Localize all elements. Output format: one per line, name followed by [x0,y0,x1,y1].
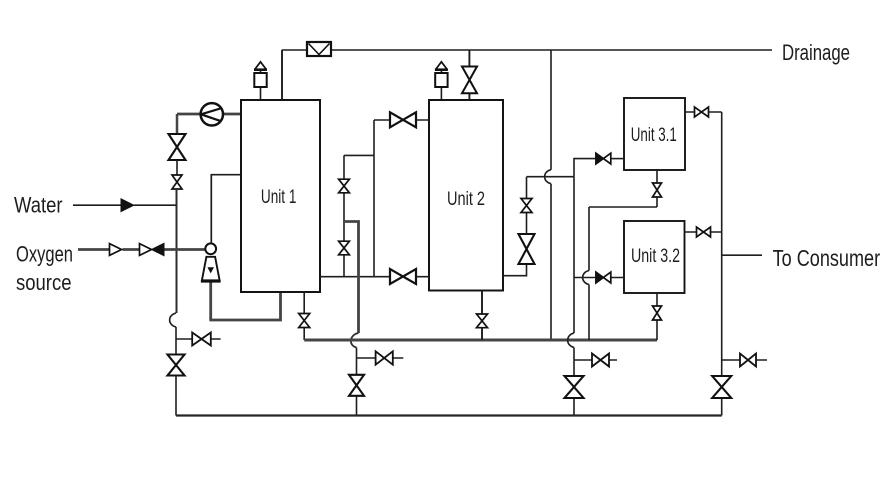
wire Unit 2 vent riser [468,50,470,100]
valve V-vent vertical on Unit 2 vent [462,67,477,94]
pump P1 [201,103,223,125]
wire pump suction/discharge line [177,113,241,116]
svg-text:Unit 3.2: Unit 3.2 [631,246,680,267]
valve V17 blowdown x574 [592,354,609,367]
wire crossover hump riser x176 [170,313,176,327]
wire Unit 3.1 outlet [685,111,722,113]
wire left riser lower [175,327,177,355]
vessel Unit 2 [429,100,503,291]
svg-text:source: source [16,270,72,295]
arrow water inlet [121,199,134,212]
wire drain column x589 [588,207,590,340]
wire Unit 1 bottom drop [303,292,305,340]
wire interunit bottom line [320,276,429,278]
check valve CV1 oxygen [110,244,122,256]
valve V23 drain x721 big [712,376,731,398]
valve V16 drain x574 big [565,376,584,398]
ejector J1 [201,243,221,320]
vessel Unit 3.2 [624,221,685,293]
relief valve PSV2 [435,62,448,99]
valve V11 Unit 1 bottom small [299,314,310,328]
wire left riser mid [176,189,178,313]
wire blowdown stub x356 [357,357,404,359]
valve V6 bypass upper small [339,179,350,193]
valve V4 left blowdown [192,333,211,346]
wire crossover hump x574 over header [568,333,574,348]
wire drain column x574 lower [573,348,575,416]
wire crossover hump riser x551 [545,170,551,184]
drain funnel FD1 [307,42,331,56]
wire left riser between valves [176,160,178,175]
svg-text:Water: Water [14,193,63,218]
valve V12 Unit 2 bottom small [477,314,488,328]
wire oxygen inlet [78,248,206,251]
svg-text:Unit 2: Unit 2 [447,189,485,210]
valve V1 left riser big [169,134,186,160]
wire interunit riser x374 [373,120,375,277]
wire Unit 3.1 inlet line [611,158,624,160]
wire riser from drainage to recycle header [550,50,552,340]
wire interunit top line [374,119,429,121]
wire recycle header thick [304,339,657,342]
relief valve PSV1 [254,62,267,100]
wire bottom drain main [176,414,722,416]
svg-text:Drainage: Drainage [782,40,850,65]
wire ejector discharge elbow [209,292,280,320]
svg-text:To Consumer: To Consumer [773,245,881,271]
wire bypass leg x344 [343,155,345,276]
wire drainage header left [282,49,307,51]
valve V20 under Unit 3.2 [653,306,662,320]
wire Unit 2 bottom drop [481,291,483,341]
valve V15 Unit 3.1 inlet [596,153,611,164]
svg-text:Unit 1: Unit 1 [261,187,297,208]
valve V13 Unit2 outlet big [519,234,535,264]
wire distribution column x574 upper [574,159,596,177]
wire Unit 3.2 inlet line [574,277,624,279]
check valve CV2 oxygen pair open/filled [140,243,165,255]
valve V8 interunit bottom [390,269,416,284]
valve V5 interunit top [390,112,416,127]
wire oxygen injection leg thick [344,222,359,334]
wire Unit 3.2 outlet [685,231,722,233]
wire Unit 2 outlet right [503,264,527,276]
valve V9 drain x356 big [349,375,364,396]
wire Unit 1 feed from left [211,175,241,244]
valve V14 Unit2 outlet small [521,199,532,213]
wire water inlet [73,204,121,206]
wire Unit 3.2 drain drop [656,293,658,340]
wire blowdown stub x721 [722,359,767,361]
vessel Unit 1 [241,100,320,292]
wire to consumer stub [722,254,762,256]
wire distribution column x574 mid [573,177,575,333]
wire water inlet after arrow [134,204,177,206]
wire drain column x356 [356,348,358,416]
wire Unit 3.1 drain drop [589,170,657,207]
wire left riser to bottom [175,376,177,416]
valve V10 blowdown x356 [376,351,393,364]
wire left riser upper [176,114,179,134]
vessel Unit 3.1 [624,98,685,170]
wire left blowdown stub [176,338,221,340]
valve V3 left drain big [168,355,185,376]
wire crossover hump x589 [583,271,589,285]
valve V22 Unit 3.2 outlet [697,227,711,237]
wire crossover hump x358 over header [351,333,359,348]
valve V19 under Unit 3.1 [653,183,662,197]
valve V24 blowdown x721 [740,354,756,367]
valve V7 bypass lower small [339,241,350,255]
wire blowdown stub x574 [574,359,617,361]
wire link x344 to x374 [344,154,374,156]
valve V18 Unit 3.2 inlet [596,272,611,283]
valve V2 left riser small [172,175,182,189]
svg-text:Unit 3.1: Unit 3.1 [631,125,677,146]
svg-text:Oxygen: Oxygen [16,241,73,266]
wire drainage header right [331,49,772,51]
wire Unit2 outlet riser mid [526,213,528,235]
wire Unit2 outlet riser top to distribution [527,177,575,199]
wire Unit 1 vent riser [281,50,283,100]
valve V21 Unit 3.1 outlet [695,107,709,117]
wire consumer riser x721 [721,112,723,416]
